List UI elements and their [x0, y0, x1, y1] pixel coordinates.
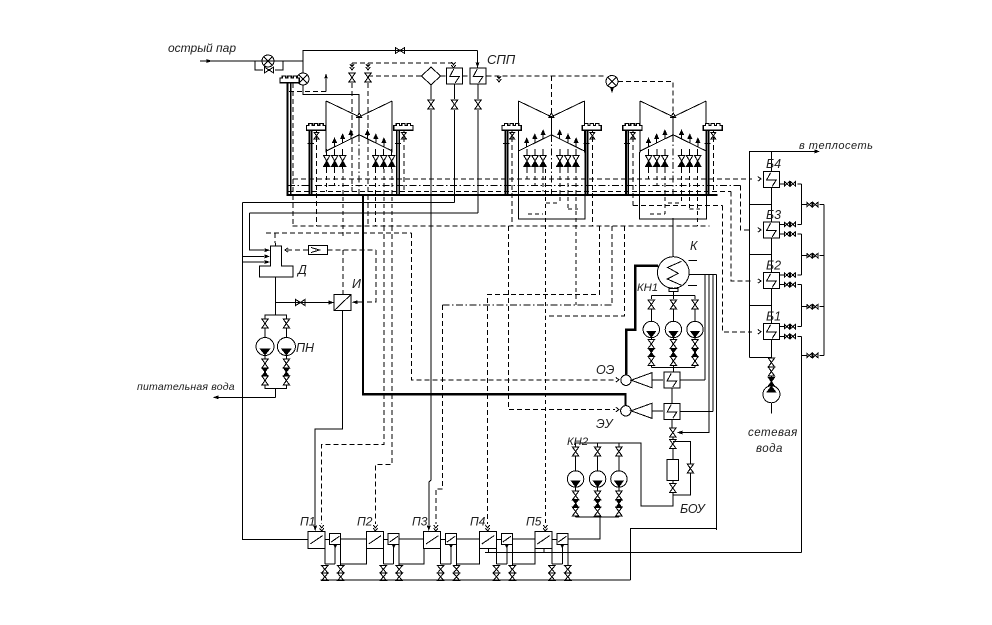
condensate pump KN1-1 [643, 321, 659, 337]
wire: extraction bus (dashed) to B4 [293, 178, 752, 180]
wire: OE to EU cooler [671, 388, 673, 403]
wire: down from junction to stop valve [302, 61, 304, 73]
arrow into evaporator left [329, 301, 335, 305]
valve KN2 suction 2 [594, 447, 600, 456]
svg-text:Д: Д [296, 263, 307, 277]
wire: dashed extraction pipes from crown headers [317, 137, 714, 226]
wire: comb vertical to BOU inlet [680, 275, 709, 433]
filled valve on network return [769, 378, 775, 386]
wire: turbine center drains (dash-dot) [359, 135, 673, 195]
network heater B1 [763, 324, 779, 340]
valve below BOU [670, 484, 676, 493]
wire: extraction bus (dashed) to B2 [288, 190, 731, 192]
svg-text:Б3: Б3 [766, 208, 781, 222]
wire: KN2 suction stems [576, 443, 619, 447]
network heater B2 [763, 273, 779, 289]
wire: drop to deaerator top [274, 233, 276, 243]
wire: feed pump suction split [265, 310, 286, 319]
wire: drain cascade rail segments [800, 184, 802, 553]
orifice device on deaerator dashed line [309, 246, 328, 255]
arrow into P1 (dashed) [320, 525, 324, 531]
wire: thick condensate main (vertical) and to EU ejector [363, 195, 626, 405]
wire: drop from dash-dot bus to B3 [740, 185, 752, 230]
wire: extraction bus (dash-dot) to B3 [288, 184, 740, 186]
valve feed pump right discharge (open) [283, 359, 289, 368]
wire: EU ejector dashed drop [509, 226, 616, 410]
valve feed pump left discharge (open 2) [262, 376, 268, 385]
arrow into SPP-2 top [476, 62, 480, 68]
arrow into P5 (dashed) [543, 525, 547, 531]
valve (circle-X) turbine stop [297, 73, 309, 85]
wire: condensate line between P4 and P5 [512, 538, 535, 540]
valve KN1 suction 3 [692, 300, 698, 309]
wire: dashed hot reheat to turbine 3 [618, 82, 673, 114]
wire: dashed stubs above turbine1 valves [352, 63, 368, 66]
wire: cooling water stubs [688, 261, 697, 286]
valve feed pump left discharge (open) [262, 359, 268, 368]
valve pair B2 lower [784, 282, 795, 286]
wire: LP drain collector [321, 579, 631, 581]
valve in bypass [264, 67, 273, 73]
arrow into P3 (dashed) [434, 525, 438, 531]
wire: bypass stub 4 [801, 354, 824, 356]
valve KN2 suction 1 [572, 447, 578, 456]
crown header T3 left [623, 123, 642, 195]
wire: B2 upper stub [779, 274, 801, 276]
wire: bypass stub 2 [801, 255, 824, 257]
wire: B1 upper stub [779, 326, 801, 328]
wire: KN1 discharge manifold [651, 368, 695, 372]
wire: to turbine 1 inlet [303, 85, 359, 113]
wire: SPP-1 drain down with valve [454, 84, 456, 99]
valve (circle-X) on live steam line [262, 55, 274, 67]
valve KN2 discharge 3 (double) [616, 491, 622, 500]
SPP reheater 1 [447, 68, 463, 84]
wire: bypass rail with valve pairs [823, 205, 825, 356]
wire: condensate line between P2 and P3 [399, 538, 424, 540]
LP heater P4 [480, 531, 516, 580]
evaporator I (square with diagonal) [334, 295, 351, 311]
arrow into BOU string [677, 431, 683, 435]
wire: pump discharge stems [651, 338, 695, 368]
arrow into deaerator inlet 1 [265, 248, 271, 252]
wire: bold pipes below crown C0 [288, 83, 291, 196]
svg-text:питательная вода: питательная вода [137, 381, 235, 393]
wire: turbine 3 exhaust to condenser [672, 218, 674, 256]
wire: condensate line between P3 and P4 [457, 538, 480, 540]
wire: B1 lower stub [779, 335, 801, 337]
wire: riser and branch to P5 [545, 226, 624, 316]
wire: deaerator inlet 2 from rail [243, 255, 264, 257]
valve at BOU inlet [670, 428, 676, 437]
crown header T1 left [306, 123, 325, 195]
turbine T1 (LP cylinder 1) [326, 101, 392, 153]
crown header T1 right [394, 123, 413, 195]
turbine T3 drain valves [646, 149, 701, 169]
arrow into SPP-1 top [451, 62, 455, 68]
valve pair bypass 1 [807, 202, 818, 206]
wire: KN2 discharge stems [576, 487, 619, 517]
wire: SPP-2 drain header (solid) [250, 212, 478, 214]
wire: drop from bus to B2 [731, 191, 752, 281]
wire: dashed line deaerator to orifice to evaporator/condensate [287, 250, 376, 295]
wire: condensate rail from SPP-1 header down to deaerator and P1 [243, 203, 309, 540]
wire: P4 heater dashed drop [488, 226, 600, 524]
turbine T2 (LP cylinder 2) [518, 101, 584, 153]
wire: thick condensate from condenser to OE [626, 266, 658, 375]
network heater B4 [763, 172, 779, 188]
wire: P2 shell drain to P1 stack [341, 548, 367, 564]
turbine T3 (LP cylinder 3) [640, 101, 706, 153]
condensate pump KN1-2 [665, 321, 681, 337]
valve on SPP top line [395, 48, 404, 54]
svg-text:СПП: СПП [487, 52, 516, 67]
svg-text:Б1: Б1 [766, 310, 781, 324]
svg-text:в теплосеть: в теплосеть [799, 140, 873, 152]
valve on D-I line [296, 300, 305, 306]
wire: main crossover steam header (thick) [287, 194, 718, 196]
deaerator D (column + tank) [260, 246, 293, 277]
turbine T2 drain valves [524, 149, 579, 169]
arrow into B1 [758, 330, 761, 335]
arrow into P3 [427, 526, 431, 532]
condensate pump KN2-1 [567, 471, 583, 487]
wire: dashed drops from t1 admission valves [352, 83, 368, 225]
arrow below circle-X [610, 88, 614, 94]
wire: stem [672, 438, 674, 440]
svg-text:П4: П4 [470, 515, 486, 529]
arrow on live steam line [207, 59, 213, 63]
feed pump PN right [277, 338, 295, 356]
wire: network water return stem [770, 356, 772, 359]
valve above turbine 1 (right) [366, 64, 370, 70]
wire: B4 drain stub [779, 183, 801, 185]
wire: condenser right header comb [689, 274, 717, 276]
valve KN2 discharge 2 (double) [594, 491, 600, 500]
wire: network water column through heaters [770, 151, 772, 357]
wire: P3 sub-bus (dash-dot) [443, 304, 612, 306]
arrow into P2 (dashed) [373, 525, 377, 531]
wire: SPP-1 drain header (solid) [243, 202, 455, 204]
wire: B2 lower stub [779, 284, 801, 286]
valve feed pump left suction [262, 319, 268, 328]
crown header T2 right [582, 123, 601, 195]
valve pair B1 upper [784, 324, 795, 328]
wire: OE outlet to condenser [680, 379, 705, 381]
wire: deaerator inlet 3 from rail [243, 261, 264, 263]
wire: dashed vent line with arrow [289, 90, 326, 92]
valve KN1 discharge 1 (open/filled/open) [648, 340, 654, 349]
network heater B3 [763, 222, 779, 238]
wire: dashed SPP line through separator and heaters [368, 75, 606, 77]
wire: bypass stub 1 [801, 204, 824, 206]
svg-text:КН2: КН2 [567, 436, 589, 448]
network water pump [763, 386, 780, 403]
wire: dashed drop to turbine 2 [550, 76, 552, 113]
wire: comb vertical to OE outlet [704, 275, 706, 380]
wire: dashed extraction from turbine 2 interior to P5 [544, 169, 546, 524]
valve (circle-X) on hot reheat dashed line [606, 76, 618, 88]
EU ejector (circle + cone) [621, 403, 664, 418]
valve KN1 suction 1 [648, 300, 654, 309]
wire: dashed pipe below crown C0 [292, 83, 294, 226]
wire: BOU outlet [672, 481, 674, 484]
arrow into deaerator inlet 3 [265, 260, 271, 264]
wire: bypass loop [255, 61, 283, 70]
valve in BOU bypass [687, 464, 693, 473]
wire: EU cooler down to BOU [671, 419, 673, 428]
wire: riser to SPP line [303, 51, 478, 62]
wire: suction stems [265, 329, 286, 338]
valve KN1 suction 2 [670, 300, 676, 309]
svg-text:ПН: ПН [296, 341, 315, 355]
BOU condensate polisher [667, 459, 678, 480]
wire: dashed drains below turbine 2 valves [527, 169, 576, 305]
svg-text:П2: П2 [357, 515, 373, 529]
condenser K [658, 257, 690, 292]
crown header T2 left [502, 123, 521, 195]
arrow into P1 (solid) [313, 526, 317, 532]
feed pump PN left [256, 338, 274, 356]
wire: collector riser to condenser drain header [631, 528, 717, 580]
wire: KN1 suction manifold [651, 296, 695, 299]
wire: condensate from P5 to KN2 riser [568, 538, 600, 540]
wire: deaerator steam bus (dashed) [266, 232, 411, 234]
wire: P1 heater dashed drop [322, 226, 384, 524]
wire: P2 heater dashed drop [375, 226, 391, 524]
arrow into EU ejector [616, 407, 619, 412]
wire: P3 heater dashed drop (from bus via jog) [436, 305, 443, 524]
wire: dashed stub with down arrow right of SPP-2 [498, 76, 500, 78]
valve pair B3 upper [784, 222, 795, 226]
arrow into evaporator right [352, 300, 358, 304]
wire: condensate line between P1 and P2 [341, 538, 367, 540]
svg-text:П1: П1 [300, 515, 315, 529]
svg-text:вода: вода [756, 443, 783, 455]
wire: steam into deaerator top [275, 243, 277, 246]
condensate pump KN1-3 [687, 321, 703, 337]
wire: extraction bus (dashed) to B1 [633, 204, 723, 206]
valve pair B2 upper [784, 273, 795, 277]
wire: stem [770, 377, 772, 378]
arrow into B4 [758, 177, 761, 182]
wire: long extraction bus (dashed) feeding LP heaters and EU ejector [293, 225, 710, 227]
valve feed pump right discharge (filled) [284, 368, 290, 376]
valve above BOU [670, 440, 676, 449]
OE ejector (circle + cone) [621, 373, 663, 388]
wire: evaporator outlet to P1 [315, 311, 342, 525]
turbine T2 exhaust hood [518, 152, 585, 219]
svg-text:ОЭ: ОЭ [596, 363, 615, 377]
wire: dashed drains below turbine 3 valves [649, 169, 698, 226]
svg-text:И: И [352, 277, 361, 291]
wire: P4 shell drain to P3 stack [457, 548, 480, 564]
valve pair bypass 2 [807, 254, 818, 258]
arrow into deaerator inlet 2 [265, 254, 271, 258]
wire: P4/P5 shell drains to cascade line [489, 548, 544, 553]
LP heater P2 [366, 531, 402, 580]
svg-text:К: К [690, 239, 698, 253]
wire: P5 shell drain to P4 stack [512, 548, 535, 564]
crown header C0 [280, 76, 299, 83]
wire: condenser outlet down [672, 291, 674, 295]
wire: P3 shell drain to P2 stack [399, 548, 424, 564]
valve feed pump right suction [283, 319, 289, 328]
wire: BOU bypass [673, 441, 691, 495]
valve above turbine 1 (left) [350, 64, 354, 70]
condensate pump KN2-3 [611, 471, 627, 487]
arrow feed water [213, 395, 219, 399]
LP heater P5 [535, 531, 571, 580]
wire: B3 upper stub [779, 223, 801, 225]
valve KN1 discharge 2 (open/filled/open) [670, 340, 676, 349]
wire: deaerator outlet down [275, 277, 277, 315]
wire: KN2 discharge manifold and down to P5 [576, 517, 619, 540]
OE cooler (square with zigzag) [664, 372, 680, 388]
wire: stems to KN2 pumps [576, 457, 619, 472]
turbine T1 drain valves [324, 149, 395, 169]
wire: SPP-2 drain down with valve [477, 84, 479, 99]
valve feed pump left discharge (filled) [262, 368, 268, 376]
wire: comb vertical to EU outlet [712, 275, 714, 412]
valve pair B4 drain [784, 182, 795, 186]
valve KN1 discharge 3 (open/filled/open) [692, 340, 698, 349]
valve pair bypass 4 [807, 353, 818, 357]
wire: rail from SPP-2 header down to deaerator inlet 1 [250, 213, 264, 250]
valve KN2 discharge 1 (double) [572, 491, 578, 500]
LP heater P1 [308, 531, 344, 580]
wire: live steam line [200, 60, 303, 62]
wire: network water inlet [770, 403, 772, 414]
wire: dashed drop to thick condensate pipe [364, 250, 376, 302]
svg-text:П5: П5 [526, 515, 542, 529]
separator (diamond) [422, 67, 441, 85]
wire: bypass stub 3 [801, 306, 824, 308]
svg-text:ЭУ: ЭУ [596, 417, 615, 431]
wire: OE ejector dashed drop [411, 233, 615, 380]
LP heater P3 [424, 531, 460, 580]
wire: EU outlet to condenser [680, 410, 713, 412]
valve on network return 1 [768, 358, 774, 367]
wire: solid line into SPP-2 top [477, 51, 479, 69]
valve pair B1 lower [784, 334, 795, 338]
arrow into OE ejector [616, 378, 619, 383]
svg-text:КН1: КН1 [637, 282, 658, 294]
valve KN2 suction 3 [616, 447, 622, 456]
wire: BOU outlet elbow to KN2 [576, 443, 673, 506]
valve pair bypass 3 [807, 305, 818, 309]
condensate pump KN2-2 [589, 471, 605, 487]
svg-text:П3: П3 [412, 515, 428, 529]
arrow into B3 [758, 228, 761, 233]
wire: stems to pumps [651, 310, 695, 322]
wire: comb vertical drain riser [716, 275, 718, 531]
wire: heater drain cascade line from B1 rail [485, 552, 801, 554]
valve on network return 2 [768, 367, 774, 376]
arrow into deaerator right side [285, 248, 288, 253]
SPP reheater 2 [470, 68, 486, 84]
wire: feed water outlet line [216, 396, 276, 398]
wire: feed pumps rejoin [265, 385, 286, 397]
EU cooler (square with zigzag) [664, 403, 680, 419]
wire: dashed line into SPP-1 top [352, 62, 454, 65]
arrow into B2 [758, 279, 761, 284]
valve pair B3 lower [784, 232, 795, 236]
svg-text:Б2: Б2 [766, 259, 781, 273]
crown header T3 right [703, 123, 722, 195]
wire: short dashed segments under turbines [528, 203, 700, 214]
turbine T3 exhaust hood [640, 152, 707, 219]
wire: rail crossbars [750, 205, 772, 358]
wire: separator drain down with valve [430, 85, 432, 99]
svg-text:сетевая: сетевая [748, 427, 798, 439]
svg-text:Б4: Б4 [766, 157, 781, 171]
wire: dashed drains below turbine 1 valves [327, 169, 392, 237]
wire: riser to P3 sub-bus [611, 226, 613, 305]
wire: network water supply to grid [750, 151, 816, 357]
wire: B3 lower stub [779, 233, 801, 235]
wire: drop from bus to B1 [723, 205, 753, 331]
svg-text:БОУ: БОУ [680, 502, 707, 516]
valve feed pump right discharge (open 2) [283, 376, 289, 385]
arrow into P4 (dashed) [485, 525, 489, 531]
wire: deaerator to evaporator line [276, 302, 335, 304]
wire: discharge stems [265, 356, 286, 359]
arrow to heating grid [815, 149, 821, 153]
svg-text:острый пар: острый пар [168, 41, 236, 55]
wire: stem to BOU [672, 449, 674, 459]
wire: makeup into evaporator right side [355, 301, 363, 303]
